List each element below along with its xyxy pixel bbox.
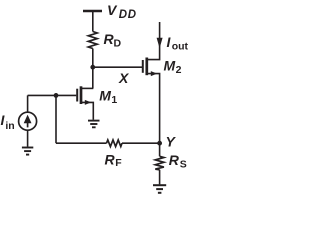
M2 source wire (147, 74, 160, 144)
bottom wire right of RF (122, 142, 160, 144)
wire junction down-left column (55, 95, 57, 143)
svg-text:R: R (169, 152, 180, 168)
wire node X to M2 gate (93, 66, 142, 68)
svg-text:DD: DD (119, 9, 137, 21)
svg-text:X: X (118, 70, 130, 86)
wire I_in top (27, 95, 29, 112)
M1 source wire (81, 102, 93, 119)
M1 gate bar (76, 89, 78, 102)
svg-text:R: R (105, 152, 116, 168)
transistor M1 (77, 86, 93, 120)
svg-text:F: F (115, 157, 122, 169)
M2 gate bar (142, 60, 144, 73)
svg-text:S: S (180, 158, 187, 170)
node (gate wire junction) (54, 93, 59, 98)
svg-text:out: out (172, 40, 189, 52)
M2 source arrow (151, 71, 157, 76)
resistor RF (107, 140, 123, 147)
svg-text:in: in (5, 120, 14, 132)
node Y (157, 141, 162, 146)
M1 source arrow (85, 100, 91, 105)
bottom wire left of RF (56, 142, 107, 144)
svg-text:2: 2 (176, 64, 182, 76)
ground (RS) (153, 185, 166, 193)
wire RS to ground (159, 170, 161, 185)
svg-text:V: V (107, 2, 118, 18)
I_out arrow (157, 38, 163, 48)
svg-text:M: M (164, 58, 176, 74)
resistor RD (88, 32, 97, 49)
wire RD to node X and down to M1 drain (92, 49, 94, 89)
current source I_in (19, 112, 37, 130)
resistor RS (155, 156, 164, 170)
svg-text:D: D (114, 37, 122, 49)
M2 channel bar (145, 58, 148, 76)
wire Y to RS (159, 143, 161, 156)
M1 channel bar (80, 86, 83, 104)
svg-text:1: 1 (111, 94, 117, 106)
ground (M1 source) (88, 121, 100, 128)
transistor M2 (143, 22, 160, 143)
VDD supply bar (83, 10, 102, 13)
wire I_in bottom (27, 130, 29, 146)
M1 gate wire (28, 94, 77, 96)
M2 drain wire (147, 22, 160, 60)
M1 drain wire (81, 87, 93, 89)
svg-text:M: M (99, 88, 111, 104)
ground (I_in) (22, 148, 33, 155)
node X (90, 65, 95, 70)
svg-text:Y: Y (166, 134, 177, 150)
wire VDD to RD (92, 11, 94, 32)
